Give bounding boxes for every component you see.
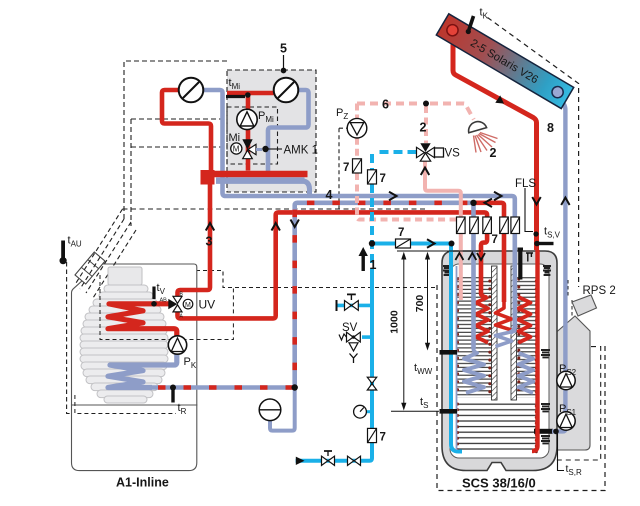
node: expansion junction dot [292,384,298,390]
node: line 6 branch dot [423,101,429,107]
svg-text:2: 2 [490,146,497,160]
pipe: DHW circulation line 6 (pink dashed) [357,104,474,220]
flow arrow right on pipe 4 [389,192,397,200]
solar collector 2-5 Solaris V26 [436,14,573,109]
svg-text:VS: VS [445,148,461,160]
pump P_Z [347,118,367,138]
node: cold feed corner dot [449,241,455,247]
svg-text:M: M [185,302,191,309]
svg-text:UV: UV [199,298,216,312]
tank upper coil left [456,277,492,398]
pump P_K [168,336,186,354]
dashed box around RPS2 [555,347,601,460]
sensor tWW bar [440,350,458,355]
svg-text:7: 7 [492,234,498,246]
motor M of mixer [231,143,242,154]
svg-text:AMK 1: AMK 1 [284,145,319,157]
node: AMK1 dot and leader [262,146,282,152]
tank flange right lower [541,404,550,411]
dimension reference line [397,250,481,252]
svg-text:7: 7 [380,432,386,444]
svg-text:700: 700 [414,295,426,313]
manifold return bar (blue) [216,177,305,184]
sensor tV bar and node [151,287,157,307]
RPS2 solar station grey body [552,316,590,450]
flow arrow right on cold feed [427,239,435,247]
flow arrow down blue drop [291,220,299,228]
dashed cable bundle into boiler [76,209,136,298]
heating circuit symbol 1 [179,78,204,103]
svg-text:8: 8 [547,121,554,135]
svg-text:SV: SV [342,322,358,334]
safety valve SV [339,332,372,363]
sensor tS bar [440,409,458,414]
svg-text:FLS: FLS [515,178,536,190]
dashed system boundary around storage tank [437,285,605,491]
tank internal red zigzag right [519,297,531,343]
pipe: boiler return from tank (blue with red dashes) [150,203,474,388]
dimension 700 [427,256,429,346]
pipe: VS valve to tank circulation (pink) [425,160,461,301]
RPS2 bracket [572,295,597,316]
pressure gauge [354,405,372,418]
expansion vessel [259,399,281,421]
flow arrow on solar supply [495,95,504,103]
pipe: solar supply inside tank (red) [532,250,538,451]
tank magnesium anode [518,248,524,280]
node: return junction dot [470,200,476,206]
tank internal blue zigzag left [464,349,484,393]
storage tank SCS outer shell [442,251,557,471]
flow arrow up on solar return [561,198,569,206]
svg-text:4: 4 [326,188,333,202]
pipe: UV to tank charging (red) [178,212,488,318]
pipe 4: heating return to tank (blue) [223,180,515,333]
arrow 1 cold water [359,247,368,271]
flow arrow left on tank return [485,199,493,207]
dashed wire to outdoor sensor tAU [67,262,176,414]
manifold junction block (red) [201,170,215,185]
tank internal red zigzag left [476,297,488,343]
tank cylinder blue zigzag [496,320,515,347]
pipe: cold water to VS valve (cyan dashed) [372,152,417,277]
throttle 7 on circulation line [353,159,362,173]
tank cylinder red zigzag [496,300,512,330]
heating circuit symbol 2 [274,78,299,103]
svg-text:M: M [233,145,240,154]
safety group: test valve branch [336,294,372,311]
sensor tMi bar and node [226,92,251,98]
tank central cylinder [492,266,517,400]
shower symbol [469,122,498,153]
mixing valve Mi [242,139,262,158]
manifold supply bar (red) [203,171,308,178]
svg-text:A1-Inline: A1-Inline [116,476,169,490]
tank thermowell [526,253,533,262]
pump P_S2 [557,371,575,389]
tank inlet arrows [455,253,485,260]
flow arrow up pipe 3 [206,223,214,231]
svg-text:Mi: Mi [229,132,241,144]
dashed wire to pump P_Mi [131,118,227,120]
inlet check valve [348,456,361,465]
boiler flue box [108,267,142,285]
tank solar coil [456,402,538,453]
pipe: branch line 2 to VS valve (pink dashed) [424,106,428,143]
pump P_Mi [237,109,257,129]
boiler heat-cell lamella stack [80,285,168,403]
burner with hatch [75,252,105,284]
pipe: heating circuit 2 return (blue) [268,90,309,177]
tank solar connection bar [534,429,553,434]
boiler A1-Inline outline [72,264,197,471]
pipe 3: boiler supply riser (red) [178,184,211,296]
pipe: cold water main riser (cyan) [296,277,372,461]
svg-text:1: 1 [370,258,377,272]
svg-text:tS: tS [420,396,428,410]
tank upper coil right [517,277,539,398]
pipe: mixer riser (red) [246,93,251,171]
control unit AMK1 grey enclosure [227,70,316,192]
dashed wire boiler to pump PZ and UV [105,128,437,296]
tank inner vessel [450,264,549,458]
dashed wire bus horizontal [123,208,429,210]
tank internal blue zigzag right [519,353,534,393]
pipe: cold water to tank (cyan) [372,244,462,452]
pipe: heating circuit 1 return (blue) [204,90,223,181]
pipe: solar supply from collector (red) [453,33,537,250]
sensor tSR node and leader [553,429,564,471]
node: FLS sensor dot [533,231,538,236]
valve UV (3-way diverting) [160,292,184,320]
svg-text:3: 3 [206,235,213,249]
svg-text:PZ: PZ [336,107,348,121]
svg-text:7: 7 [398,227,404,239]
flow arrow up red riser [272,223,280,231]
valve VS (3-way mixing) [417,143,444,161]
flow arrow up below VS [421,168,429,176]
dashed box around P_Mi and Mi [227,107,278,164]
dashed box around boiler coil [100,275,233,340]
svg-text:tK: tK [480,7,489,21]
sensor tSV dot and bar [534,241,553,247]
flow arrow down on solar supply [532,197,540,205]
boiler supply heat exchanger coil (red) [108,304,177,337]
boiler return heat exchanger coil (blue) [108,354,177,388]
cold water inlet arrow [296,457,305,465]
svg-text:7: 7 [380,173,386,185]
tank flange top left [443,266,451,275]
pipe: heating circuit 1 supply (red) [162,90,211,171]
pipe: solar return to collector (blue) [552,99,565,432]
svg-text:AB: AB [160,298,168,304]
dashed boundary around solar collector [488,18,579,288]
tank flange top right [543,266,551,275]
dashed wire to mixer Mi [131,146,227,148]
pump P_S1 [557,412,575,430]
svg-text:6: 6 [382,98,389,112]
svg-text:7: 7 [343,162,349,174]
throttle 7 on riser bottom [368,428,377,442]
node: cold water tee dot [369,240,375,246]
svg-text:tWW: tWW [414,362,433,376]
shutoff valve on riser [367,377,376,390]
tS datum line [391,410,439,412]
pipe: tank heating return exit (red) [474,203,505,302]
pipe: return branch into tank (blue) [471,203,476,349]
sensor tK [466,16,474,34]
dashed service line inside boiler bottom [75,395,176,414]
sensor tAU symbol [60,241,67,265]
inlet shutoff valve with handle [322,451,335,465]
tank flange right middle [541,350,550,357]
svg-text:RPS 2: RPS 2 [583,285,616,297]
pipe: thin blue liner in tank [456,266,458,450]
pipe: expansion vessel connection (blue) [270,388,295,431]
svg-text:tS,V: tS,V [544,226,561,240]
dashed wiring box top-left [124,61,227,226]
throttle 7 on cold feed to tank [396,239,411,248]
svg-text:tAU: tAU [68,235,82,249]
svg-text:tS,R: tS,R [566,463,582,477]
sensor tR node and bar [170,385,176,403]
manifold to pipe 4 connector (blue) [302,181,310,196]
throttle 7 on cold water riser [368,170,377,184]
flow arrow right on pipe 4 near tank [494,192,502,200]
svg-text:1000: 1000 [389,310,401,334]
svg-text:SCS 38/16/0: SCS 38/16/0 [462,476,536,491]
tank flange right bottom [541,436,550,443]
motor M of UV [183,299,193,309]
svg-text:5: 5 [280,42,287,56]
node: label 5 dot [281,55,287,73]
dashed stubs at RPS2 bracket [568,280,572,316]
dimension 1000 [403,256,405,406]
coil wire end dots [458,279,537,452]
wire to FLS label [525,188,533,232]
valve row above tank: balancing valves 7 [457,217,520,234]
pipe: heating circuit 2 supply (red) [227,91,274,96]
svg-text:2: 2 [420,121,427,135]
